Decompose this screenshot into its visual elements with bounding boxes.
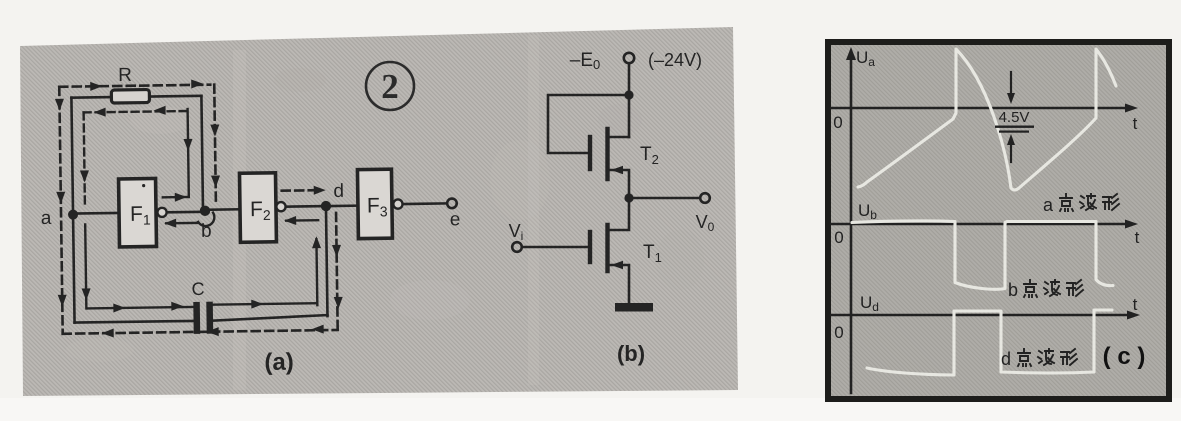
transistor T2: [590, 129, 629, 198]
wire: inner dashed path top: [84, 111, 188, 112]
vertical axis of waveform panel: [850, 52, 853, 393]
terminal e open circle: [447, 198, 457, 208]
arrow down on dashed path below d: [332, 245, 341, 257]
svg-text:0: 0: [833, 113, 842, 132]
arrow left on inner top path: [94, 108, 106, 117]
output node dot: [624, 193, 633, 202]
svg-text:R: R: [118, 65, 132, 86]
svg-text:(a): (a): [264, 349, 294, 376]
terminal V0 open circle: [700, 193, 710, 203]
wire: Vi to T1 gate: [522, 246, 588, 249]
waveform trace Ud: [867, 310, 1112, 375]
wire: F1 bubble to node b: [167, 210, 203, 213]
axis t of Ud plot: [831, 314, 1134, 317]
arrow on T2 source: [611, 166, 623, 174]
inverter bubble of F1: [157, 208, 166, 217]
capacitor C left plate: [193, 302, 200, 334]
arrow left on inner top path: [154, 106, 166, 115]
wire: inner path right vertical near b: [188, 109, 189, 197]
node b junction dot: [200, 205, 211, 216]
hook arc at node b: [198, 213, 214, 226]
axis t of Ua plot: [831, 107, 1132, 110]
wire: node b to F2 input: [205, 208, 240, 211]
arrow left on bottom dashed path: [312, 325, 324, 334]
label d dian waveform: [1001, 349, 1077, 369]
arrow down on inner left path: [80, 170, 89, 182]
node a junction dot: [68, 210, 78, 220]
axis arrow right Ua: [1125, 104, 1138, 113]
waveform trace Ua: [858, 49, 1116, 190]
terminal Vi open circle: [512, 242, 522, 252]
4.5V annotation arrow down: [1010, 72, 1012, 97]
axis arrow up: [846, 47, 856, 60]
wire: node d down to bottom loop: [326, 206, 328, 316]
waveform trace Ub: [852, 221, 1113, 289]
svg-text:b: b: [201, 221, 212, 242]
arrow down on left dashed path: [58, 295, 67, 307]
svg-text:t: t: [1133, 114, 1138, 133]
gate F3: [357, 169, 392, 238]
arrow down on right dashed path: [210, 125, 219, 137]
arrow left below F1-b wire: [164, 219, 176, 228]
svg-text:a: a: [1043, 195, 1054, 215]
arrow down on left dashed path: [56, 192, 65, 204]
wire: current path up into d: [315, 239, 318, 305]
svg-text:0: 0: [834, 323, 843, 342]
svg-text:d: d: [333, 181, 344, 202]
arrow right on horizontal above b: [175, 193, 187, 202]
svg-text:a: a: [41, 208, 52, 229]
4.5V annotation arrow up: [1010, 140, 1012, 162]
svg-text:t: t: [1133, 295, 1138, 314]
wire: arrow line below F2-d wire: [286, 219, 318, 222]
junction dot at supply: [624, 90, 633, 99]
arrow down on dashed path below d lower: [334, 297, 343, 309]
wire: solid loop a up to resistor: [71, 98, 74, 323]
underline of 4.5V: [995, 126, 1034, 128]
wire: gate feedback of T2: [548, 95, 629, 153]
gate F1: [119, 178, 157, 247]
inverter bubble of F3: [393, 199, 402, 208]
paper mottling: [66, 35, 1086, 390]
arrow left on bottom dashed path: [207, 327, 219, 336]
svg-text:d: d: [1001, 349, 1011, 369]
arrow right on top dashed path: [191, 79, 203, 88]
arrow right on inner bottom right path: [251, 299, 263, 308]
wire: inner dashed path left side: [84, 112, 85, 205]
label b dian waveform: [1008, 280, 1083, 300]
inverter bubble of F2: [276, 202, 285, 211]
figure number 2: [366, 62, 414, 110]
arrow on T1 source: [611, 261, 623, 269]
svg-text:e: e: [450, 209, 461, 230]
wire: node a to F1 input: [73, 212, 119, 215]
arrow right on dashed path near d: [314, 186, 326, 195]
wire: solid loop top left to resistor: [71, 96, 111, 99]
axis arrow right Ub: [1125, 220, 1138, 229]
wire: inner path horizontal above b: [163, 196, 189, 199]
wire: node d to F3 input: [331, 204, 358, 207]
wire: supply down to junction: [628, 64, 631, 95]
svg-text:t: t: [1135, 228, 1140, 247]
wire: outer dashed current path right side: [214, 85, 216, 205]
label a dian waveform: [1043, 194, 1119, 215]
wire: outer dashed current path top: [59, 85, 210, 87]
wire: dashed current path F2 to d: [282, 189, 318, 192]
wire: outer dashed current path left side: [59, 87, 62, 334]
axis t of Ub plot: [831, 223, 1132, 226]
arrow down on left dashed path: [55, 99, 64, 111]
wire: solid loop top resistor to right: [149, 95, 201, 98]
arrow up into node d: [312, 236, 321, 248]
svg-text:4.5V: 4.5V: [999, 109, 1030, 126]
capacitor C right plate: [206, 302, 213, 334]
arrow left below F2-d wire: [284, 216, 296, 225]
wire: solid loop right side down to node b: [201, 96, 203, 207]
ground: [615, 303, 653, 312]
wire: inner current path bottom right with arrow: [212, 303, 317, 304]
axis arrow right Ud: [1127, 311, 1140, 320]
wire: F2 bubble to node d: [286, 205, 326, 208]
arrow right on inner bottom path: [113, 303, 125, 312]
dot inside F1: [142, 184, 145, 187]
svg-text:( c ): ( c ): [1103, 343, 1146, 370]
arrow right on top dashed path: [90, 82, 102, 91]
wire: dashed current path below node d: [336, 213, 338, 329]
wire: inner current path bottom left with arrows: [87, 307, 193, 308]
svg-text:(–24V): (–24V): [648, 50, 702, 70]
arrow down on right dashed path: [211, 176, 220, 188]
wire: bottom solid loop right segment: [212, 315, 327, 321]
arrow left on bottom dashed path: [102, 329, 114, 338]
arrow down on inner right vertical: [184, 139, 193, 151]
svg-text:b: b: [1008, 280, 1018, 300]
resistor R: [111, 90, 149, 104]
arrow down on inner left lower path: [82, 288, 91, 300]
transistor T1: [590, 198, 629, 303]
wire: outer dashed current path bottom: [63, 330, 338, 334]
gate F2: [239, 173, 276, 242]
terminal -E0 open circle: [624, 53, 634, 63]
wire: inner path left side lower solid: [85, 224, 86, 308]
panel (a)(b) paper background: [20, 27, 738, 396]
wire: junction down to T2 drain: [628, 95, 631, 137]
wire: bottom solid loop left segment: [75, 321, 195, 323]
svg-text:C: C: [191, 279, 204, 299]
arrow right on inner bottom path: [171, 302, 183, 311]
node d junction dot: [321, 201, 332, 212]
wire: arrow line below F1-b wire: [166, 222, 198, 225]
svg-text:2: 2: [381, 67, 399, 106]
wire: F3 bubble to terminal e: [403, 202, 447, 205]
waveform panel frame: [828, 42, 1169, 399]
wire: output node to V0: [629, 197, 700, 200]
svg-text:(b): (b): [617, 341, 645, 366]
svg-text:0: 0: [834, 228, 843, 247]
